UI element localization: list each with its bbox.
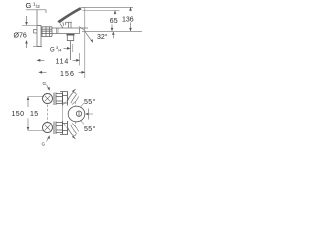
dimension 150±15 — [27, 97, 44, 131]
lever extreme upper — [64, 89, 79, 105]
svg-text:G: G — [50, 48, 55, 54]
dimension 136 — [129, 7, 132, 31]
dimension 156 — [39, 71, 86, 74]
55deg text lower — [84, 125, 96, 133]
cartridge cap — [66, 22, 73, 28]
svg-text:G: G — [26, 1, 32, 10]
G1/2 small label bottom-lower — [47, 136, 50, 142]
centerline y31.3 — [82, 30, 142, 32]
114 text — [56, 59, 70, 66]
G3/4 arrow — [64, 47, 70, 49]
svg-text:55°: 55° — [84, 125, 96, 133]
union flange lower — [43, 123, 53, 133]
55deg leader lower — [80, 120, 84, 125]
32deg diagonal with arrow — [79, 27, 93, 43]
svg-text:/2: /2 — [36, 4, 40, 10]
dimension 114 — [37, 59, 80, 62]
union nut lower — [54, 122, 63, 135]
svg-text:G: G — [42, 142, 46, 147]
32deg arrow to centerline — [112, 32, 115, 39]
label G1/2 top — [26, 1, 41, 10]
svg-text:32°: 32° — [97, 33, 108, 41]
body ring — [57, 28, 59, 34]
wall line side view — [36, 10, 38, 47]
mixer body tube — [52, 28, 88, 34]
mixer body front — [60, 92, 68, 135]
extension line y10.8 — [83, 10, 120, 12]
156 text — [60, 71, 75, 78]
union nut side view — [41, 27, 52, 37]
body end edge — [79, 28, 81, 34]
svg-text:114: 114 — [56, 59, 70, 66]
centerline horizontal hub — [85, 113, 93, 115]
dimension Ø76 lower arrow — [25, 40, 42, 48]
escutcheon slab side view — [38, 26, 42, 47]
dimension Ø76 upper arrow — [22, 16, 41, 26]
svg-text:156: 156 — [60, 71, 75, 78]
dimension 65 — [111, 10, 117, 31]
union axis dashed — [47, 105, 49, 123]
extension line 114 vertical — [79, 53, 81, 66]
G1/2 small label bottom — [47, 85, 50, 91]
hub right tick — [88, 109, 90, 120]
extension line mousseur vertical — [70, 41, 72, 60]
mousseur outlet — [67, 34, 75, 36]
extension line lever tip vertical — [84, 7, 86, 78]
svg-text:Ø76: Ø76 — [14, 33, 27, 40]
65 text — [110, 18, 118, 25]
150±15 text — [12, 111, 39, 118]
union nut upper — [54, 93, 63, 106]
55deg leader upper — [80, 103, 84, 108]
spout face circle — [68, 106, 85, 122]
svg-text:15: 15 — [30, 111, 39, 118]
extension line top y7.3 — [81, 6, 134, 8]
svg-text:65: 65 — [110, 18, 118, 25]
svg-text:G: G — [43, 81, 47, 86]
svg-text:55°: 55° — [84, 98, 96, 106]
union flange upper — [43, 94, 53, 104]
centerline vertical hub — [75, 102, 77, 127]
hub arrowhead — [85, 113, 88, 115]
Ø76 text — [14, 33, 27, 40]
lever extreme lower — [64, 124, 79, 140]
136 text — [122, 16, 134, 23]
G1/2 leader bracket — [26, 10, 46, 13]
svg-text:150: 150 — [12, 111, 25, 118]
svg-text:136: 136 — [122, 16, 134, 23]
wall pipe stub — [34, 30, 38, 34]
32deg text — [97, 33, 108, 41]
lever handle blade — [57, 7, 82, 28]
label G3/4 — [50, 45, 62, 54]
55deg text upper — [84, 98, 96, 106]
